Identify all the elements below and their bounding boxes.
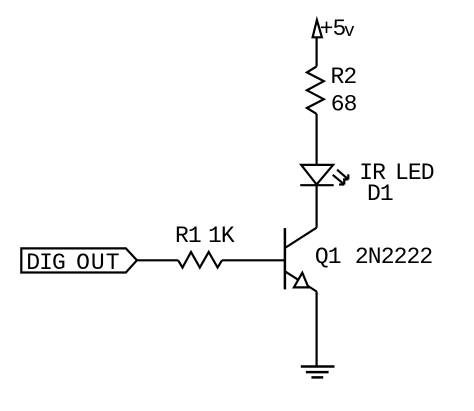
svg-text:Q1: Q1	[315, 244, 341, 270]
svg-text:1K: 1K	[208, 223, 235, 249]
svg-text:68: 68	[331, 91, 357, 117]
svg-text:+5: +5	[320, 16, 346, 42]
svg-text:D1: D1	[367, 181, 393, 207]
svg-text:DIG: DIG	[26, 250, 65, 276]
svg-text:v: v	[344, 22, 355, 42]
svg-text:OUT: OUT	[76, 250, 120, 276]
svg-text:R1: R1	[175, 223, 201, 249]
svg-text:R2: R2	[331, 64, 357, 90]
svg-text:LED: LED	[395, 160, 434, 186]
svg-text:2N2222: 2N2222	[355, 244, 433, 270]
